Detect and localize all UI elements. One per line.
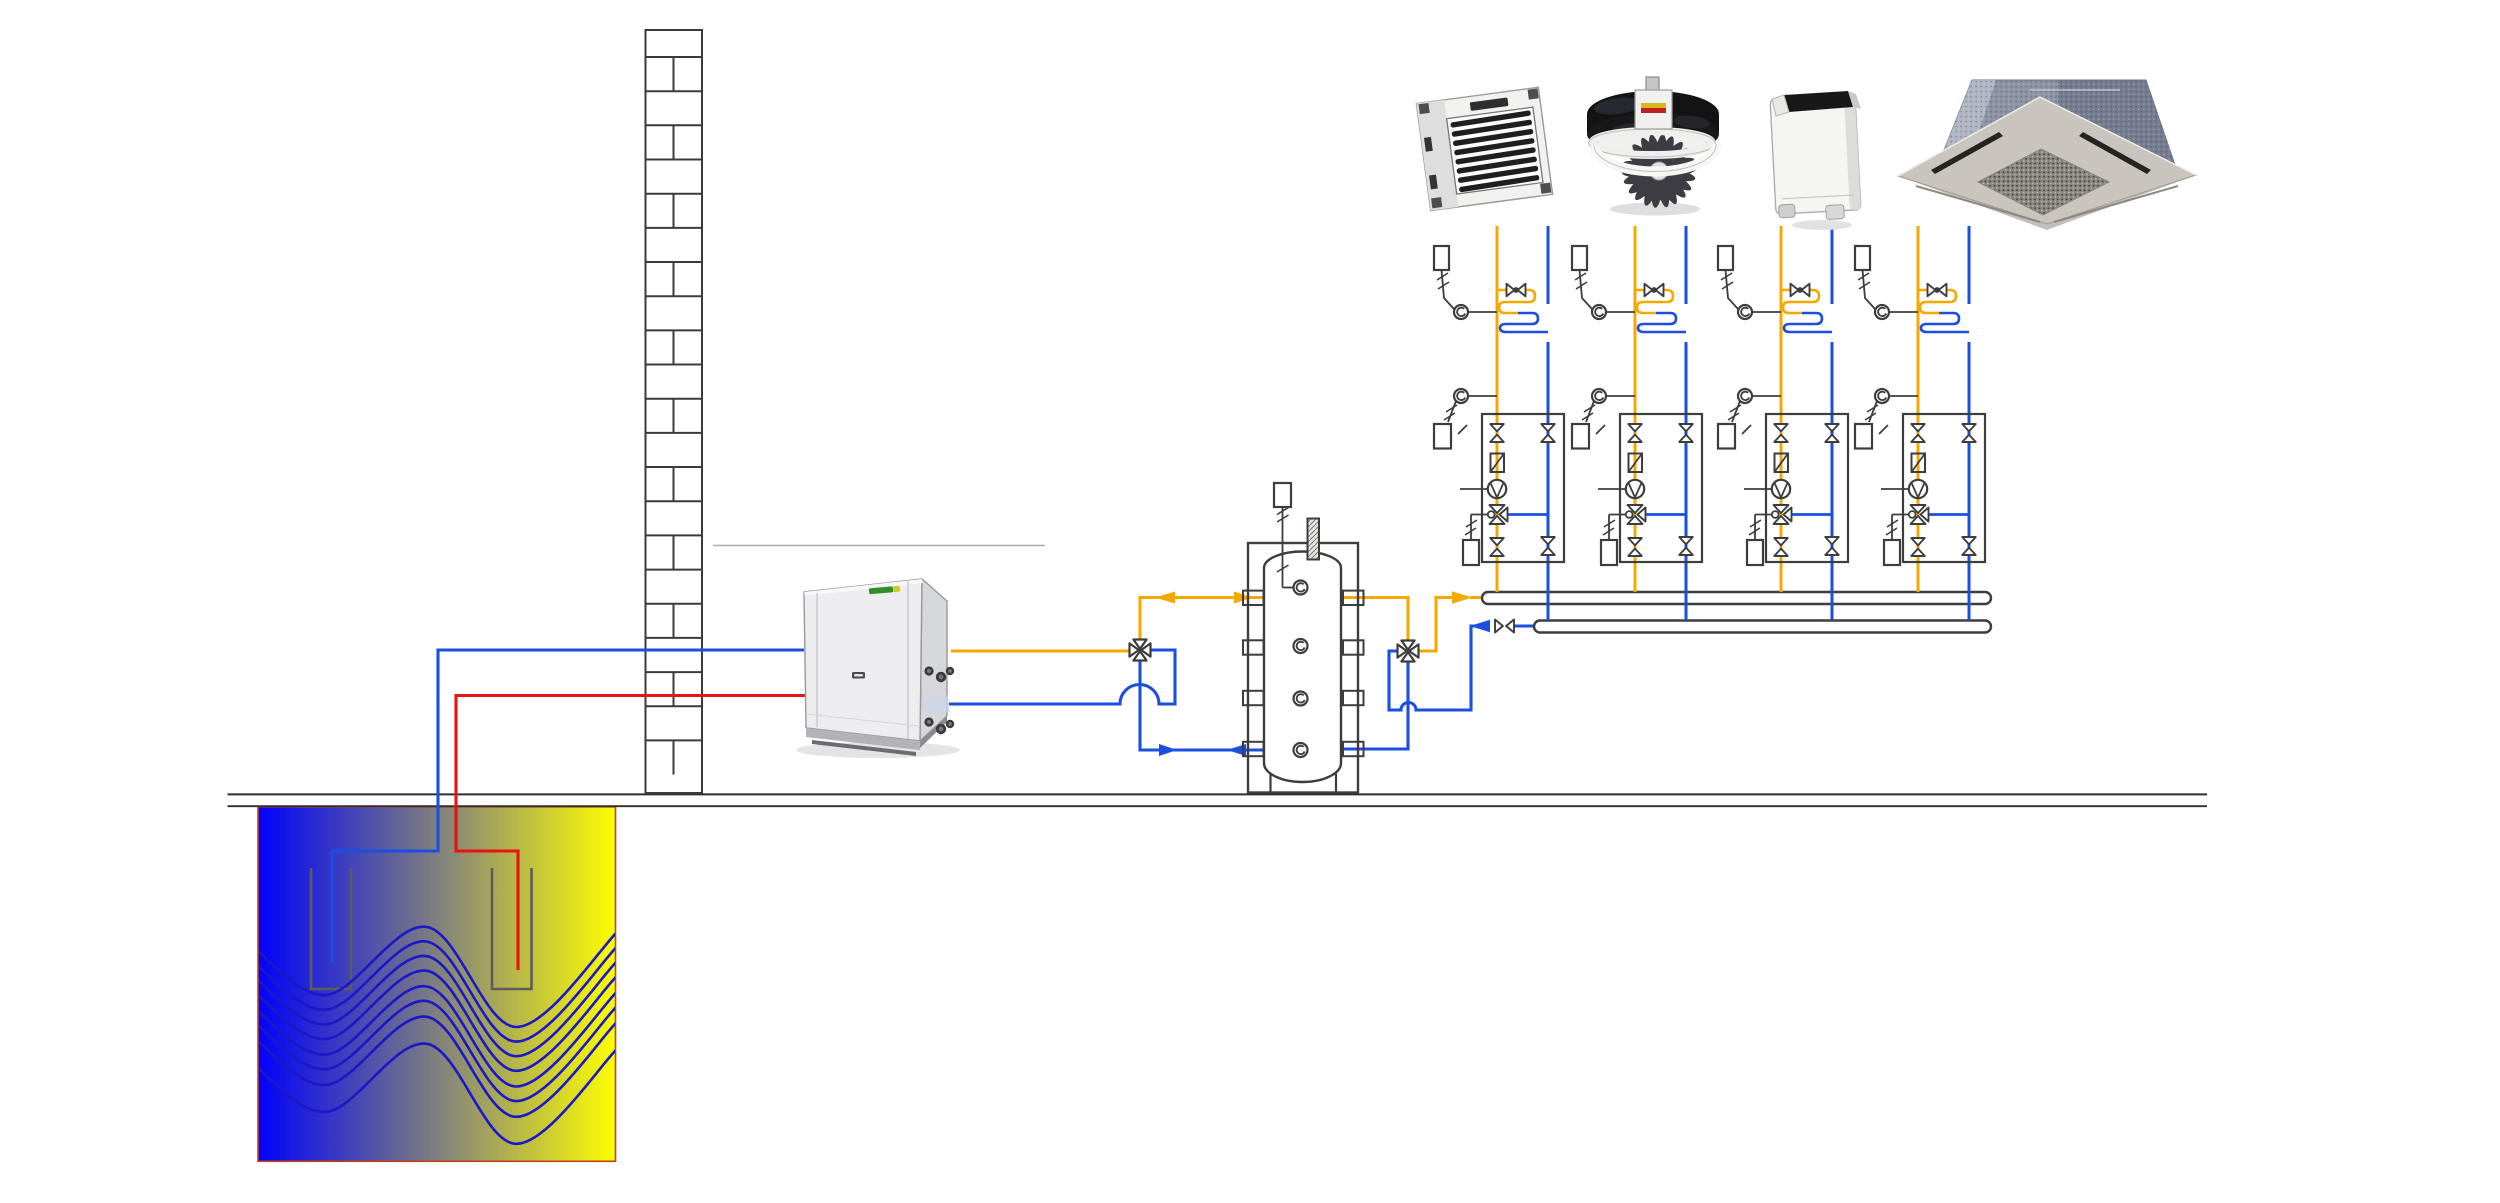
- blue pipe: left valve to heat pump return (with crossover hump): [949, 650, 1175, 704]
- return shutoff valve top: [1679, 424, 1693, 431]
- ground surface line upper: [228, 793, 2208, 795]
- thermometer sensor lower: [1875, 389, 1889, 403]
- expansion vessel upper: [1855, 246, 1870, 270]
- expansion vessel lower: [1434, 424, 1451, 449]
- expansion vessel lower: [1572, 424, 1589, 449]
- tank side stubs: [1243, 591, 1364, 757]
- blue pipe: left valve down to tank bottom: [1140, 660, 1264, 751]
- borehole U-tube left: [311, 868, 351, 989]
- supply manifold: [1482, 592, 1991, 604]
- supply shutoff valve bottom: [1490, 538, 1504, 545]
- blue return drop lower: [1547, 342, 1550, 621]
- return shutoff valve bottom: [1541, 537, 1555, 544]
- flow arrow left on tank supply: [1155, 592, 1175, 604]
- motorized valve on supply: [1497, 289, 1507, 292]
- thermometer sensor lower: [1592, 389, 1606, 403]
- orange pipe: tank to right valve: [1341, 598, 1408, 642]
- expansion vessel upper: [1434, 246, 1449, 270]
- orange pipe: heat pump to left mixing valve: [951, 649, 1131, 652]
- expansion vessel in-box: [1747, 540, 1763, 565]
- branch circuit at dx=0: orange supply drop: [1496, 226, 1499, 592]
- strainer/filter: [1912, 454, 1926, 473]
- heat pump unit: [796, 579, 960, 758]
- strainer/filter: [1775, 454, 1789, 473]
- blue return drop upper: [1547, 226, 1550, 304]
- motorized valve on supply: [1918, 289, 1928, 292]
- tank skirt legs: [1269, 774, 1271, 793]
- branch circuit at dx=284: orange supply drop: [1780, 226, 1783, 592]
- supply shutoff valve bottom: [1774, 538, 1788, 545]
- supply shutoff valve top: [1490, 424, 1504, 431]
- 3-way mixing valve: [1928, 513, 1969, 516]
- expansion vessel upper: [1718, 246, 1733, 270]
- motorized valve on supply: [1635, 289, 1645, 292]
- return shutoff valve top: [1541, 424, 1555, 431]
- return shutoff valve bottom: [1825, 537, 1839, 544]
- red pipe: heat pump to ground loop: [456, 696, 806, 971]
- supply shutoff valve bottom: [1628, 538, 1642, 545]
- heat exchanger serpentine orange part: [1783, 290, 1819, 313]
- air heater unit photo: [1416, 87, 1552, 210]
- thermometer sensor lower: [1738, 389, 1752, 403]
- blue pipe: heat pump to ground loop: [332, 650, 804, 963]
- expansion vessel upper: [1572, 246, 1587, 270]
- blue pipe: right valve down to tank bottom: [1341, 661, 1408, 750]
- expansion vessel in-box: [1463, 540, 1479, 565]
- return manifold: [1534, 621, 1991, 633]
- ceiling cassette unit photo: [1898, 80, 2196, 230]
- tank sensors: [1294, 581, 1308, 595]
- supply shutoff valve top: [1774, 424, 1788, 431]
- thermometer sensor upper: [1454, 305, 1468, 319]
- borehole U-tube right: [492, 868, 532, 989]
- blue return drop lower: [1831, 342, 1834, 621]
- blue return drop upper: [1968, 226, 1971, 304]
- circulation pump: [1598, 488, 1626, 490]
- buffer tank vessel: [1264, 552, 1341, 783]
- heat exchanger serpentine orange part: [1920, 290, 1956, 313]
- return shutoff valve bottom: [1962, 537, 1976, 544]
- flow arrow left on tank bottom-left pipe: [1227, 744, 1246, 756]
- return shutoff valve top: [1825, 424, 1839, 431]
- strainer/filter: [1491, 454, 1505, 473]
- return shutoff valve bottom: [1679, 537, 1693, 544]
- blue pipe: return manifold to right valve (with crossover hump): [1389, 626, 1490, 710]
- flow arrow left on return: [1470, 620, 1490, 632]
- brick chimney wall: [646, 30, 703, 793]
- circulation pump: [1744, 488, 1772, 490]
- flow arrow right on tank bottom-left pipe: [1159, 744, 1177, 756]
- motorized valve on supply: [1781, 289, 1791, 292]
- branch distribution box: [1482, 414, 1564, 562]
- tank level gauge (hatched): [1308, 519, 1320, 560]
- branch distribution box: [1766, 414, 1848, 562]
- thermometer sensor upper: [1738, 305, 1752, 319]
- blue return drop upper: [1831, 226, 1834, 304]
- tank safety valve: [1274, 483, 1291, 507]
- thin separator line: [713, 545, 1045, 547]
- supply shutoff valve top: [1628, 424, 1642, 431]
- flow arrow right into tank: [1234, 592, 1252, 604]
- heat exchanger serpentine orange part: [1637, 290, 1673, 313]
- heat exchanger serpentine blue part: [1784, 313, 1832, 332]
- right 4-way mixing valve: [1401, 641, 1414, 650]
- blue return shutoff valve: [1514, 624, 1534, 627]
- expansion vessel lower: [1855, 424, 1872, 449]
- blue return drop lower: [1968, 342, 1971, 621]
- ground heat-exchanger field (gradient box): [258, 807, 616, 1162]
- blue return drop lower: [1685, 342, 1688, 621]
- supply shutoff valve bottom: [1911, 538, 1925, 545]
- branch circuit at dx=138: orange supply drop: [1634, 226, 1637, 592]
- 3-way mixing valve: [1645, 513, 1686, 516]
- flow arrow into supply manifold: [1452, 591, 1472, 603]
- expansion vessel in-box: [1601, 540, 1617, 565]
- destratification fan unit photo: [1587, 77, 1719, 216]
- thermometer sensor lower: [1454, 389, 1468, 403]
- circulation pump: [1460, 488, 1488, 490]
- blue return drop upper: [1685, 226, 1688, 304]
- strainer/filter: [1629, 454, 1643, 473]
- expansion vessel in-box: [1884, 540, 1900, 565]
- heat exchanger serpentine orange part: [1499, 290, 1535, 313]
- return shutoff valve top: [1962, 424, 1976, 431]
- heat exchanger serpentine blue part: [1638, 313, 1686, 332]
- expansion vessel lower: [1718, 424, 1735, 449]
- buffer tank frame: [1248, 543, 1358, 793]
- 3-way mixing valve: [1507, 513, 1548, 516]
- ground temperature isotherm waves: [252, 927, 618, 1144]
- left 4-way mixing valve: [1133, 640, 1146, 649]
- branch distribution box: [1903, 414, 1985, 562]
- branch circuit at dx=421: orange supply drop: [1917, 226, 1920, 592]
- branch distribution box: [1620, 414, 1702, 562]
- heat exchanger serpentine blue part: [1921, 313, 1969, 332]
- circulation pump: [1881, 488, 1909, 490]
- ground surface line lower: [228, 805, 2208, 807]
- orange pipe: right valve to supply manifold: [1418, 598, 1454, 652]
- orange pipe: left valve riser to tank: [1140, 598, 1264, 641]
- 3-way mixing valve: [1791, 513, 1832, 516]
- supply shutoff valve top: [1911, 424, 1925, 431]
- heat exchanger serpentine blue part: [1500, 313, 1548, 332]
- thermometer sensor upper: [1875, 305, 1889, 319]
- thermometer sensor upper: [1592, 305, 1606, 319]
- floor console fan coil photo: [1770, 91, 1861, 230]
